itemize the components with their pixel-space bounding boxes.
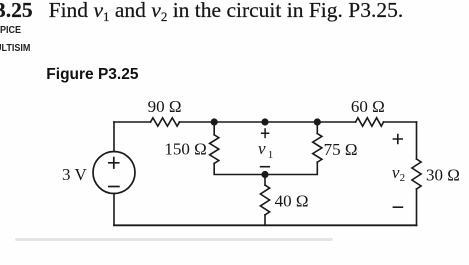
margin label PSPICE (cut) <box>0 24 21 36</box>
svg-text:v: v <box>258 139 266 158</box>
svg-text:40 Ω: 40 Ω <box>275 192 309 211</box>
resistor 40 ohm <box>260 185 269 215</box>
v1 minus mark <box>261 166 270 168</box>
label v1 <box>258 139 273 161</box>
margin label MULTISIM (cut) <box>0 42 30 54</box>
label v2 <box>392 163 405 184</box>
node N3 dot <box>314 118 321 125</box>
v2 minus mark <box>393 206 402 208</box>
problem statement line <box>0 0 403 25</box>
source minus mark <box>109 186 119 188</box>
resistor 150 ohm <box>210 135 219 164</box>
svg-text:2: 2 <box>400 172 406 184</box>
wire bottom rail <box>114 224 417 226</box>
label 60 ohm <box>351 97 385 116</box>
wire 75-ohm top stem <box>316 122 318 134</box>
node N1 dot <box>211 118 218 125</box>
label 150 ohm <box>164 140 206 159</box>
label 75 ohm <box>324 140 358 159</box>
label 3 V <box>62 165 87 184</box>
svg-text:75 Ω: 75 Ω <box>324 140 358 159</box>
svg-text:90 Ω: 90 Ω <box>148 97 182 116</box>
label 90 ohm <box>148 97 182 116</box>
wire top rail <box>114 121 417 123</box>
wire 150-ohm top stem <box>213 122 215 135</box>
resistor 30 ohm <box>412 159 421 189</box>
resistor 60 ohm <box>356 118 384 126</box>
wire middle rail <box>214 162 317 174</box>
node v1 minus dot <box>261 171 268 178</box>
label 30 ohm <box>426 165 460 184</box>
resistor 75 ohm <box>313 134 322 163</box>
svg-text:30 Ω: 30 Ω <box>426 165 460 184</box>
v2 plus mark <box>393 135 402 144</box>
resistor 90 ohm <box>151 118 180 126</box>
v1 plus mark <box>262 129 269 137</box>
figure caption <box>46 66 138 83</box>
svg-text:150 Ω: 150 Ω <box>164 140 206 159</box>
wire left vertical <box>113 122 115 225</box>
svg-text:1: 1 <box>268 149 274 161</box>
voltage source V1 circle <box>93 152 135 194</box>
svg-text:3 V: 3 V <box>62 165 87 184</box>
wire 40-ohm stems <box>264 175 266 226</box>
wire right vertical <box>416 122 418 225</box>
label 40 ohm <box>275 192 309 211</box>
scan artifact smudge <box>15 238 333 241</box>
svg-text:60 Ω: 60 Ω <box>351 97 385 116</box>
node v1 plus dot <box>261 118 268 125</box>
source plus mark <box>109 158 119 168</box>
